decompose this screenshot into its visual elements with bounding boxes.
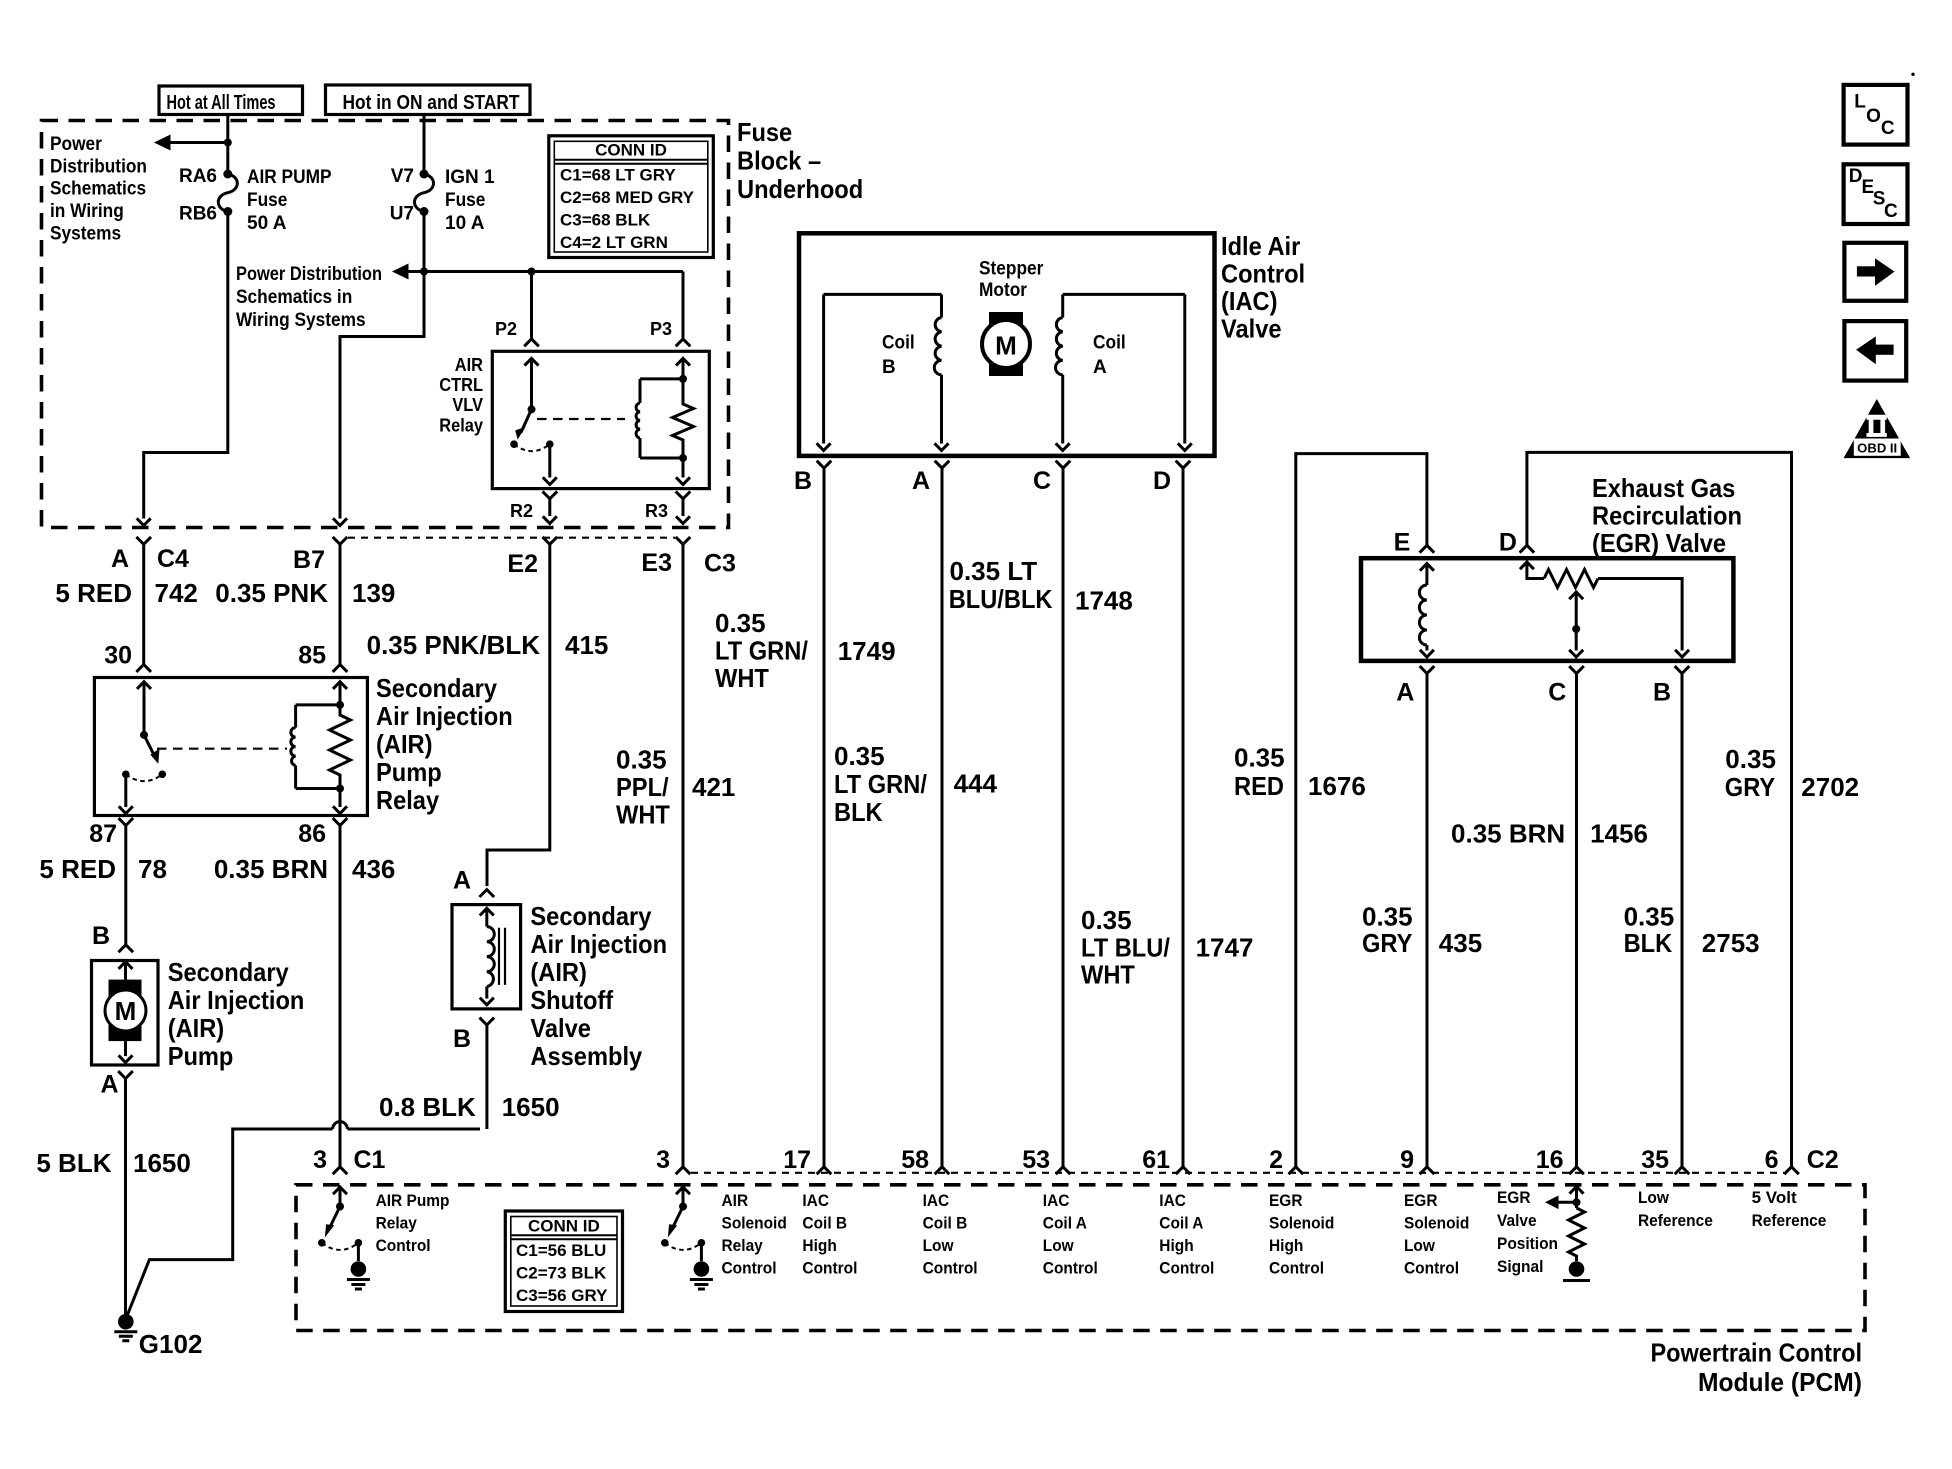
svg-text:Relay: Relay [376, 785, 440, 815]
svg-text:Low: Low [1043, 1236, 1075, 1255]
IAC coil B [817, 294, 949, 450]
pin 3 connector (C3) [656, 1146, 690, 1174]
svg-text:EGR: EGR [1497, 1188, 1531, 1207]
svg-text:GRY: GRY [1362, 928, 1412, 958]
svg-text:AIR: AIR [722, 1191, 749, 1210]
svg-text:742: 742 [155, 578, 198, 608]
pin 61 connector [1142, 1146, 1190, 1174]
svg-text:Exhaust Gas: Exhaust Gas [1592, 473, 1735, 503]
svg-text:LT GRN/: LT GRN/ [834, 769, 927, 799]
svg-text:CONN ID: CONN ID [595, 141, 667, 160]
svg-text:1747: 1747 [1196, 933, 1254, 963]
svg-text:BLK: BLK [1624, 928, 1673, 958]
svg-text:Air Injection: Air Injection [530, 929, 667, 959]
EGR position sensor potentiometer [1520, 562, 1689, 657]
pin 2 connector [1269, 1146, 1303, 1174]
svg-text:Control: Control [722, 1259, 777, 1278]
connector D below IAC [1153, 461, 1190, 495]
svg-text:Air Injection: Air Injection [168, 985, 305, 1015]
svg-text:Fuse: Fuse [247, 190, 287, 211]
IAC stepper motor symbol [982, 312, 1030, 376]
svg-text:C4=2 LT GRN: C4=2 LT GRN [560, 233, 668, 252]
svg-text:Reference: Reference [1638, 1211, 1713, 1230]
wire 2702 (0.35 GRY) EGR D to pin 6 [1527, 452, 1792, 1166]
relay switch (common from P2) [510, 358, 557, 484]
svg-text:RED: RED [1234, 771, 1284, 801]
svg-text:G102: G102 [139, 1329, 203, 1359]
svg-text:1749: 1749 [838, 636, 896, 666]
AIR shutoff valve box [452, 905, 521, 1009]
svg-text:LT BLU/: LT BLU/ [1081, 933, 1170, 963]
svg-text:CONN ID: CONN ID [528, 1217, 600, 1236]
svg-text:Control: Control [1043, 1259, 1098, 1278]
AIR pump box [92, 961, 159, 1066]
svg-text:Control: Control [1159, 1259, 1214, 1278]
svg-text:Relay: Relay [722, 1236, 764, 1255]
svg-text:CTRL: CTRL [439, 375, 483, 395]
connector B at AIR pump [92, 922, 133, 952]
wire 421 (0.35 PPL/WHT) [682, 544, 685, 1167]
svg-text:6: 6 [1765, 1146, 1779, 1174]
svg-text:A: A [1093, 357, 1107, 378]
svg-text:Motor: Motor [979, 280, 1028, 301]
svg-text:30: 30 [104, 642, 132, 670]
pump motor symbol [105, 962, 146, 1063]
icon previous arrow [1844, 321, 1906, 381]
relay switch 30-87 [119, 682, 166, 814]
stray dot [1911, 73, 1914, 76]
svg-text:Coil: Coil [882, 333, 915, 354]
pin 35 connector [1641, 1146, 1689, 1174]
connector A below IAC [912, 461, 949, 495]
svg-text:5 RED: 5 RED [39, 854, 116, 884]
pin 17 connector [783, 1146, 831, 1174]
arrow down at fuse block exit [137, 518, 151, 525]
label box "Hot at All Times" [159, 86, 303, 115]
wire 2753 (0.35 BLK) EGR B to pin 35 [1681, 674, 1684, 1167]
svg-text:444: 444 [954, 769, 998, 799]
svg-text:RB6: RB6 [179, 204, 217, 225]
svg-text:D: D [1153, 467, 1171, 495]
svg-text:Systems: Systems [50, 224, 121, 245]
svg-text:5 RED: 5 RED [55, 578, 132, 608]
svg-text:AIR: AIR [455, 355, 483, 375]
CONN ID table (fuse block) [549, 136, 714, 258]
svg-text:Fuse: Fuse [445, 190, 485, 211]
svg-text:0.35 BRN: 0.35 BRN [1451, 819, 1565, 849]
svg-text:Recirculation: Recirculation [1592, 501, 1742, 531]
svg-text:M: M [115, 996, 137, 1026]
wire 1747 (0.35 LT BLU/WHT) IAC D to pin 61 [1182, 468, 1185, 1167]
svg-text:Coil B: Coil B [802, 1214, 847, 1233]
wire from Hot at All Times to fuse RA6 [226, 115, 229, 172]
wire 436 (0.35 BRN) down to PCM pin 3 C1 [339, 826, 342, 1167]
svg-text:2: 2 [1269, 1146, 1283, 1174]
pin 58 connector [901, 1146, 949, 1174]
connector P2 [524, 339, 539, 346]
wire 444 (0.35 LT GRN/BLK) IAC A to pin 58 [941, 468, 944, 1167]
junction node [224, 139, 232, 147]
svg-text:Secondary: Secondary [376, 673, 497, 703]
wire RB6 down to exit (C4 A) [144, 212, 228, 519]
connector into relay pin 85 [333, 665, 348, 672]
svg-text:421: 421 [692, 772, 735, 802]
connector B below IAC [794, 461, 831, 495]
svg-text:Power Distribution: Power Distribution [236, 264, 382, 285]
svg-text:Coil A: Coil A [1043, 1214, 1087, 1233]
svg-text:A: A [912, 467, 930, 495]
svg-text:(EGR) Valve: (EGR) Valve [1592, 528, 1726, 558]
svg-text:B: B [453, 1025, 471, 1053]
svg-text:Relay: Relay [439, 416, 483, 436]
wire 139 (0.35 PNK) [339, 544, 342, 664]
pin 9 connector [1400, 1146, 1434, 1174]
svg-text:1676: 1676 [1308, 771, 1366, 801]
svg-text:3: 3 [656, 1146, 670, 1174]
relay coil [291, 705, 340, 789]
svg-text:61: 61 [1142, 1146, 1170, 1174]
svg-text:(AIR): (AIR) [376, 729, 433, 759]
relay coil + resistor (P3 side) [636, 358, 693, 484]
svg-text:C: C [1548, 678, 1566, 706]
svg-text:Control: Control [1404, 1259, 1459, 1278]
svg-text:Pump: Pump [168, 1041, 234, 1071]
svg-text:Idle Air: Idle Air [1221, 231, 1300, 261]
icon OBD II [1844, 399, 1911, 458]
svg-text:LT GRN/: LT GRN/ [715, 636, 808, 666]
wire 435 (0.35 GRY) EGR A to pin 9 [1426, 674, 1429, 1167]
svg-text:0.35 BRN: 0.35 BRN [214, 854, 328, 884]
svg-text:O: O [1866, 106, 1881, 127]
connector E at EGR [1394, 528, 1435, 556]
svg-text:Reference: Reference [1752, 1211, 1827, 1230]
wire from Hot in ON and START to fuse V7 [423, 115, 426, 172]
wire 1650 (5 BLK) to G102 [124, 1079, 127, 1315]
fuse AIR PUMP 50A (RA6/RB6) [218, 170, 237, 217]
svg-text:Coil B: Coil B [923, 1214, 968, 1233]
connector E2 [507, 537, 557, 578]
svg-text:Control: Control [1221, 259, 1305, 289]
relay resistor [330, 682, 351, 814]
svg-text:C2: C2 [1807, 1146, 1839, 1174]
svg-text:78: 78 [138, 854, 167, 884]
svg-text:Assembly: Assembly [530, 1041, 642, 1071]
svg-text:IAC: IAC [1159, 1191, 1186, 1210]
pin 86 connector [298, 818, 347, 848]
fine dashed connector line B7-C3 [348, 537, 675, 539]
svg-text:Low: Low [1404, 1236, 1436, 1255]
svg-text:2702: 2702 [1801, 772, 1859, 802]
svg-text:0.35: 0.35 [1725, 744, 1776, 774]
svg-text:Signal: Signal [1497, 1257, 1543, 1276]
pin 87 connector [89, 818, 133, 848]
svg-text:C2=68 MED GRY: C2=68 MED GRY [560, 188, 695, 207]
svg-text:86: 86 [298, 820, 326, 848]
wire P2 drop [530, 272, 533, 339]
svg-text:R2: R2 [510, 501, 533, 521]
svg-text:Module (PCM): Module (PCM) [1698, 1367, 1862, 1397]
svg-text:C2=73 BLK: C2=73 BLK [516, 1264, 607, 1283]
wire 1748 (0.35 LT BLU/BLK) IAC C to pin 53 [1062, 468, 1065, 1167]
svg-text:C: C [1884, 201, 1898, 222]
EGR solenoid coil [1419, 564, 1434, 658]
svg-text:RA6: RA6 [179, 166, 217, 187]
svg-text:D: D [1849, 166, 1863, 187]
svg-text:16: 16 [1536, 1146, 1564, 1174]
svg-text:E: E [1394, 528, 1411, 556]
connector B7 [293, 537, 347, 574]
wire P3 drop [682, 272, 685, 339]
svg-text:1650: 1650 [133, 1148, 191, 1178]
svg-text:A: A [101, 1071, 119, 1099]
relay box Secondary AIR Pump Relay [94, 678, 367, 816]
svg-text:(IAC): (IAC) [1221, 286, 1278, 316]
svg-text:C: C [1033, 467, 1051, 495]
svg-text:Secondary: Secondary [168, 957, 289, 987]
svg-text:Secondary: Secondary [530, 901, 651, 931]
connector A below pump [101, 1071, 133, 1099]
svg-text:U7: U7 [390, 204, 414, 225]
EGR valve box [1361, 558, 1733, 661]
pin 16 connector [1536, 1146, 1584, 1174]
connector A below EGR [1396, 666, 1434, 706]
svg-text:(AIR): (AIR) [168, 1013, 225, 1043]
svg-text:Distribution: Distribution [50, 157, 147, 178]
svg-text:GRY: GRY [1725, 772, 1775, 802]
svg-text:C3=56 GRY: C3=56 GRY [516, 1286, 608, 1305]
svg-text:Coil: Coil [1093, 333, 1126, 354]
connector A at shutoff valve [453, 867, 494, 898]
svg-text:Schematics: Schematics [50, 179, 146, 200]
svg-text:139: 139 [352, 578, 395, 608]
svg-text:1748: 1748 [1075, 586, 1133, 616]
wire 1676 (0.35 RED) EGR E to pin 2 [1296, 454, 1427, 1167]
svg-text:WHT: WHT [715, 663, 769, 693]
svg-text:2753: 2753 [1702, 928, 1760, 958]
svg-text:1650: 1650 [502, 1092, 560, 1122]
junction node at U7 wire [420, 268, 428, 276]
svg-text:53: 53 [1022, 1146, 1050, 1174]
svg-text:Low: Low [1638, 1188, 1670, 1207]
svg-text:V7: V7 [391, 166, 414, 187]
svg-text:Solenoid: Solenoid [722, 1214, 787, 1233]
svg-text:Control: Control [1269, 1259, 1324, 1278]
svg-text:E2: E2 [507, 550, 538, 578]
pin 53 connector [1022, 1146, 1070, 1174]
svg-text:Schematics in: Schematics in [236, 287, 352, 308]
svg-text:High: High [1159, 1236, 1193, 1255]
svg-text:AIR Pump: AIR Pump [376, 1191, 450, 1210]
svg-text:M: M [995, 331, 1017, 361]
svg-text:Control: Control [376, 1236, 431, 1255]
svg-text:High: High [1269, 1236, 1303, 1255]
svg-text:IAC: IAC [802, 1191, 829, 1210]
svg-text:C1: C1 [354, 1146, 386, 1174]
svg-text:E3: E3 [641, 549, 672, 577]
svg-text:High: High [802, 1236, 836, 1255]
connector A / C4 [111, 537, 189, 573]
svg-text:Underhood: Underhood [737, 174, 863, 204]
junction node at P2 branch [528, 268, 536, 276]
svg-text:0.35: 0.35 [715, 608, 766, 638]
wire 1456 (0.35 BRN) EGR C to pin 16 [1575, 674, 1578, 1167]
svg-text:Hot in ON and START: Hot in ON and START [343, 92, 520, 114]
svg-text:PPL/: PPL/ [616, 772, 669, 802]
svg-text:Solenoid: Solenoid [1269, 1214, 1334, 1233]
connector C below IAC [1033, 461, 1070, 495]
svg-text:in Wiring: in Wiring [50, 201, 124, 222]
wire U7 down and jog to B7 exit [340, 212, 424, 519]
svg-text:C3: C3 [704, 550, 736, 578]
svg-text:B: B [794, 467, 812, 495]
arrow to power distribution (left) [154, 135, 228, 151]
svg-text:Control: Control [802, 1259, 857, 1278]
connector B below EGR [1653, 666, 1689, 706]
svg-text:P2: P2 [495, 319, 517, 339]
pin 3 C1 connector [313, 1146, 385, 1174]
relay actuation dashed link [537, 418, 625, 420]
svg-text:Hot at All Times: Hot at All Times [167, 92, 276, 114]
svg-text:415: 415 [565, 630, 608, 660]
svg-text:436: 436 [352, 854, 395, 884]
svg-text:Powertrain Control: Powertrain Control [1651, 1337, 1863, 1367]
icon next arrow [1844, 243, 1906, 301]
svg-text:C: C [1881, 118, 1895, 139]
svg-text:C4: C4 [157, 545, 189, 573]
svg-text:IGN 1: IGN 1 [445, 167, 495, 188]
shutoff valve solenoid coil [480, 908, 505, 1005]
svg-text:Wiring Systems: Wiring Systems [236, 310, 366, 331]
svg-text:Valve: Valve [530, 1013, 591, 1043]
relay box AIR CTRL VLV [492, 351, 709, 488]
svg-text:BLK: BLK [834, 797, 883, 827]
connector R2 [510, 491, 557, 523]
svg-text:A: A [111, 545, 129, 573]
svg-text:50 A: 50 A [247, 213, 287, 234]
IAC valve box [799, 233, 1215, 456]
svg-text:0.35: 0.35 [616, 745, 667, 775]
svg-text:EGR: EGR [1404, 1191, 1438, 1210]
svg-text:85: 85 [298, 642, 326, 670]
PCM driver switch pin 3 [661, 1187, 713, 1289]
wire 415 (0.35 PNK/BLK) [487, 544, 550, 886]
svg-text:58: 58 [901, 1146, 929, 1174]
svg-text:R3: R3 [645, 501, 668, 521]
relay actuation dashed link [157, 748, 287, 750]
svg-text:P3: P3 [650, 319, 672, 339]
EGR sensor wiper [1569, 592, 1583, 657]
connector R3 [645, 491, 690, 523]
svg-text:0.35: 0.35 [1234, 743, 1285, 773]
svg-text:Shutoff: Shutoff [530, 985, 613, 1015]
svg-text:Control: Control [923, 1259, 978, 1278]
svg-text:B7: B7 [293, 546, 325, 574]
svg-text:A: A [453, 867, 471, 895]
connector P3 [676, 339, 691, 346]
svg-text:Solenoid: Solenoid [1404, 1214, 1469, 1233]
svg-text:3: 3 [313, 1146, 327, 1174]
svg-text:A: A [1396, 678, 1414, 706]
connector E3 / C3 [641, 537, 736, 578]
ground G102 [114, 1314, 202, 1359]
fuse block dashed boundary [42, 121, 729, 528]
svg-text:C1=56 BLU: C1=56 BLU [516, 1241, 606, 1260]
svg-text:Valve: Valve [1221, 314, 1282, 344]
PCM driver switch pin 3 C1 [318, 1187, 370, 1289]
svg-text:5 BLK: 5 BLK [36, 1148, 111, 1178]
svg-text:17: 17 [783, 1146, 811, 1174]
svg-text:87: 87 [89, 820, 117, 848]
svg-text:EGR: EGR [1269, 1191, 1303, 1210]
svg-text:Valve: Valve [1497, 1211, 1537, 1230]
wire 1749 (0.35 LT GRN/WHT) IAC B to pin 17 [823, 468, 826, 1167]
fine dashed connector line pins 3 to C2 [691, 1172, 1784, 1174]
icon LOC [1844, 85, 1908, 145]
svg-text:0.35 PNK/BLK: 0.35 PNK/BLK [367, 630, 541, 660]
svg-text:Power: Power [50, 134, 102, 155]
svg-text:9: 9 [1400, 1146, 1414, 1174]
svg-text:0.8 BLK: 0.8 BLK [379, 1092, 476, 1122]
connector C below EGR [1548, 666, 1584, 706]
svg-text:IAC: IAC [923, 1191, 950, 1210]
connector into relay pin 30 [136, 665, 151, 672]
svg-text:(AIR): (AIR) [530, 957, 587, 987]
svg-text:L: L [1854, 92, 1866, 113]
svg-text:B: B [92, 922, 110, 950]
svg-text:0.35: 0.35 [834, 741, 885, 771]
IAC coil A [1056, 294, 1192, 450]
svg-text:WHT: WHT [1081, 960, 1135, 990]
wire 1650 (0.8 BLK) from shutoff valve B to G102 [127, 1025, 487, 1316]
svg-text:C1=68 LT GRY: C1=68 LT GRY [560, 166, 676, 185]
wire 78 (5 RED) [124, 826, 127, 945]
svg-text:OBD II: OBD II [1857, 441, 1897, 456]
svg-text:0.35: 0.35 [1081, 905, 1132, 935]
pin 6 C2 connector [1765, 1146, 1839, 1174]
svg-text:IAC: IAC [1043, 1191, 1070, 1210]
svg-text:Pump: Pump [376, 757, 442, 787]
svg-text:Fuse: Fuse [737, 117, 792, 147]
PCM sense resistor pin 16 [1545, 1187, 1590, 1281]
svg-text:5 Volt: 5 Volt [1752, 1188, 1797, 1207]
svg-text:B: B [1653, 678, 1671, 706]
label box "Hot in ON and START" [326, 85, 531, 115]
svg-text:0.35 PNK: 0.35 PNK [215, 578, 328, 608]
crossover hop at wire 436 [333, 1122, 348, 1129]
wire 742 (5 RED) [142, 544, 145, 664]
horizontal feed wire with arrow to Power Distribution [392, 264, 683, 280]
svg-text:10 A: 10 A [445, 213, 485, 234]
svg-text:D: D [1499, 528, 1517, 556]
svg-text:AIR PUMP: AIR PUMP [247, 167, 332, 188]
svg-text:Coil A: Coil A [1159, 1214, 1203, 1233]
svg-text:Position: Position [1497, 1234, 1558, 1253]
svg-text:35: 35 [1641, 1146, 1669, 1174]
fuse IGN 1 10A (V7/U7) [414, 170, 433, 217]
svg-text:B: B [882, 357, 896, 378]
svg-text:Stepper: Stepper [979, 259, 1044, 280]
svg-text:BLU/BLK: BLU/BLK [949, 584, 1053, 614]
svg-text:Low: Low [923, 1236, 955, 1255]
svg-text:WHT: WHT [616, 800, 670, 830]
PCM dashed boundary [296, 1185, 1865, 1331]
svg-text:VLV: VLV [452, 395, 483, 415]
svg-text:C3=68 BLK: C3=68 BLK [560, 211, 651, 230]
CONN ID table (PCM) [505, 1211, 622, 1312]
svg-text:1456: 1456 [1590, 819, 1648, 849]
svg-text:Relay: Relay [376, 1214, 418, 1233]
svg-text:Block –: Block – [737, 146, 821, 176]
